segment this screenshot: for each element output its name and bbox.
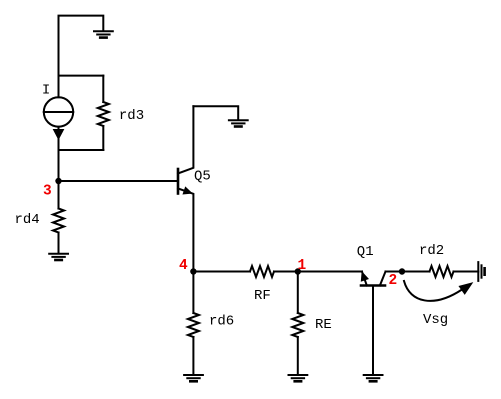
node 2 [399, 268, 405, 274]
svg-text:I: I [42, 83, 50, 99]
ground (top left) [94, 31, 113, 37]
resistor rd4 [53, 209, 64, 233]
arrow Vsg [404, 281, 471, 301]
wire node1 to Q1 emitter [298, 271, 362, 273]
ground (right, rotated) [478, 262, 484, 281]
svg-text:rd4: rd4 [15, 212, 40, 228]
svg-text:Q5: Q5 [194, 169, 211, 185]
current source I [44, 97, 73, 150]
resistor RF [250, 266, 274, 277]
wire Q1 collector to rd2 [386, 271, 430, 273]
resistor rd3 [98, 76, 109, 150]
wire node3 to Q5 base [59, 180, 179, 182]
node 3 [55, 178, 61, 184]
resistor rd2 [430, 266, 454, 277]
svg-text:rd3: rd3 [119, 108, 144, 124]
node 4 [190, 268, 196, 274]
ground (below rd6) [184, 375, 203, 381]
transistor Q1 [361, 272, 386, 375]
svg-text:rd6: rd6 [209, 314, 234, 330]
wire top-left horizontal to ground [59, 16, 104, 98]
wire rd4 to ground [58, 233, 60, 254]
svg-text:4: 4 [179, 258, 188, 274]
svg-text:RE: RE [315, 317, 332, 333]
resistor rd6 [188, 313, 199, 337]
wire RF to node1 [274, 271, 298, 273]
wire node4 down to rd6 [192, 272, 194, 314]
wire rd2 to right ground [454, 271, 479, 273]
svg-text:rd2: rd2 [419, 243, 444, 259]
wire Q5 collector to top ground [193, 106, 238, 119]
svg-text:3: 3 [43, 184, 52, 200]
wire node1 down to RE [297, 272, 299, 314]
wire RE to ground [297, 337, 299, 374]
ground (top middle) [229, 120, 248, 126]
wire parallel-top (to rd3) [59, 75, 104, 77]
wire parallel-bottom [59, 149, 104, 151]
node 1 [295, 268, 301, 274]
svg-text:1: 1 [298, 258, 307, 274]
wire rd6 to ground [192, 337, 194, 374]
svg-text:Vsg: Vsg [423, 312, 448, 328]
ground (below rd4) [49, 254, 68, 260]
ground (below RE) [289, 375, 308, 381]
resistor RE [292, 313, 303, 337]
ground (below Q1 base) [364, 375, 383, 381]
transistor Q5 [178, 106, 193, 271]
wire node3 to rd4 [58, 181, 60, 209]
svg-text:RF: RF [254, 288, 271, 304]
svg-text:2: 2 [389, 273, 398, 289]
wire left rail down to node 3 [58, 150, 60, 181]
svg-text:Q1: Q1 [357, 244, 374, 260]
wire node4 to RF [193, 271, 250, 273]
